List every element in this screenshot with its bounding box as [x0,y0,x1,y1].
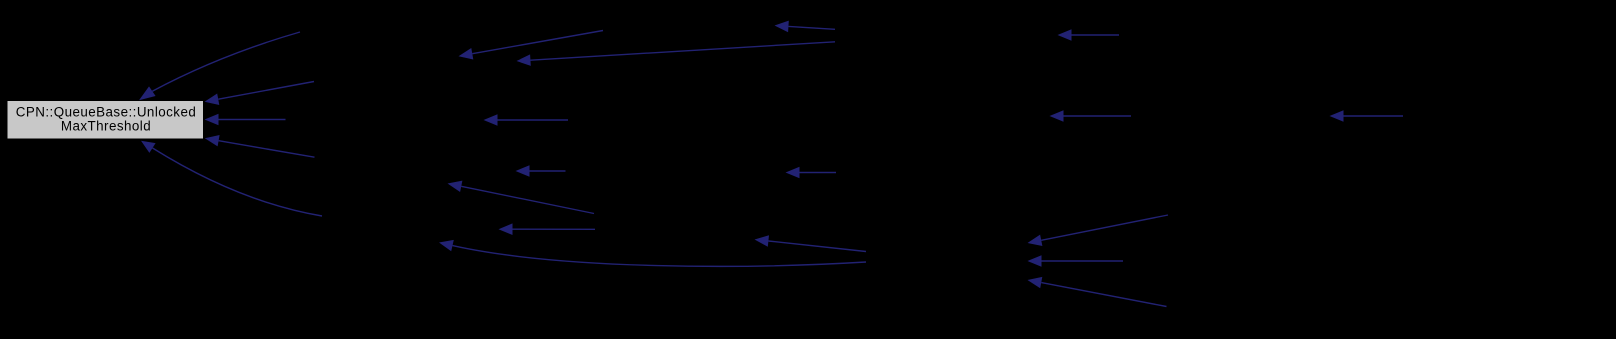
edge arrow: diagonal from above into hidden node r4c [1028,215,1169,246]
edge arrow: diagonal into hidden node r2a [459,31,604,60]
edge arrow: caller diagonal into node bottom-right corner [205,135,315,157]
edge arrow: horizontal y228 into hidden node r2f [499,223,596,235]
edge arrow: diagonal into hidden node r2e [448,181,595,214]
svg-text:CPN::QueueBase::Unlocked: CPN::QueueBase::Unlocked [16,104,197,119]
edge arrow: horizontal far right into hidden node r5a [1330,110,1404,122]
edge arrow: caller diagonal into node top-right corner [205,82,315,106]
edge arrow: short horizontal y172 into hidden node r3b [786,167,837,179]
edge arrow: diagonal from below into hidden node r4c [1028,277,1167,307]
edge arrow: caller horizontal into node right edge [205,114,286,126]
svg-text:MaxThreshold: MaxThreshold [61,118,151,133]
edge arrow: horizontal y35 into hidden node r4a [1058,29,1120,41]
edge arrow: horizontal y261 into hidden node r4c [1028,255,1124,267]
edge arrow: caller curve from lower right into node bottom [141,141,322,216]
edge arrow: caller curve from upper right into node top [139,32,300,100]
edge arrow: short horizontal y171 into hidden node r2d [516,165,566,177]
edge arrow: diagonal into hidden node r3c [755,235,867,251]
edge arrow: long sagging curve into hidden node r2g [439,240,866,266]
node box: CPN::QueueBase::UnlockedMaxThreshold (current function) [7,101,204,140]
edge arrow: long shallow diagonal into hidden node r2b [517,42,836,66]
edge arrow: horizontal y120 into hidden node r2c [484,114,569,126]
edge arrow: horizontal y116 into hidden node r4b [1050,110,1132,122]
edge arrow: short diagonal into hidden node r3a [775,21,836,33]
